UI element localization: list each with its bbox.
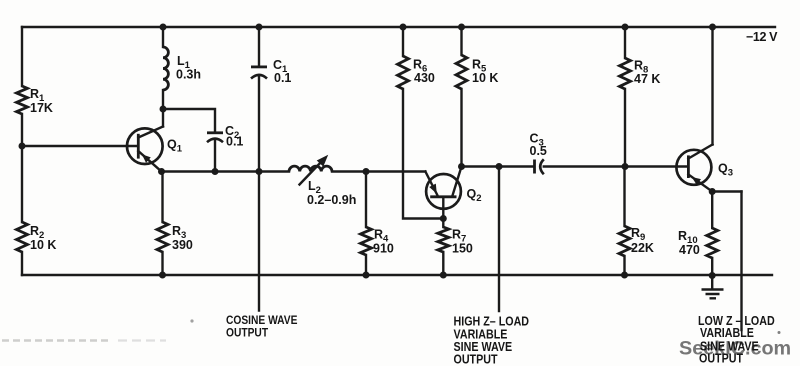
wire: L1 top lead from rail (162, 27, 164, 47)
wire: Q1 collector to L1 node (162, 109, 164, 127)
node: R8 top rail junction (622, 24, 629, 31)
resistor R9 (619, 226, 654, 256)
wire: C1 bottom lead to emitter bus (258, 76, 260, 172)
node: C2 junction (212, 168, 219, 175)
wire: R7 bottom lead (442, 252, 444, 275)
svg-text:0.1: 0.1 (274, 71, 291, 85)
wire: low Z output stub (740, 192, 742, 331)
node: high Z output tap (496, 163, 503, 170)
label LOW Z-LOAD VARIABLE SINE WAVE OUTPUT (698, 314, 775, 366)
node: Q1 emitter / R3 junction (158, 168, 165, 175)
svg-text:OUTPUT: OUTPUT (699, 352, 744, 366)
svg-text:17K: 17K (30, 101, 53, 115)
wire: R10 bottom lead (711, 258, 713, 276)
capacitor C1 (251, 58, 291, 85)
wire: L2 to Q2 emitter bend (332, 170, 425, 172)
wire: left vertical bus upper segment (21, 27, 23, 86)
resistor R2 (17, 222, 57, 252)
svg-text:OUTPUT: OUTPUT (454, 353, 499, 366)
wire: C1 top lead (258, 27, 260, 66)
svg-text:COSINE WAVE: COSINE WAVE (226, 314, 298, 327)
node: L1 top rail junction (160, 24, 167, 31)
wire: emitter bus Q1 to L2 (162, 170, 290, 172)
wire: node to C2 top (163, 109, 215, 132)
node: C1 / cosine output tap (256, 168, 263, 175)
svg-text:390: 390 (172, 238, 193, 252)
wire: left bus lower segment (21, 252, 23, 275)
svg-text:10 K: 10 K (30, 238, 56, 252)
svg-text:10 K: 10 K (472, 71, 498, 85)
wire: R6 top lead (402, 27, 404, 56)
node: Q2 collector / R5 junction (458, 163, 465, 170)
resistor R3 (157, 222, 193, 252)
wire: high Z output stub (498, 167, 500, 312)
svg-text:VARIABLE: VARIABLE (700, 326, 754, 340)
node: R6 top rail junction (400, 24, 407, 31)
scan artifact: faint dashed streak bottom left (2, 339, 110, 342)
inductor L2 (variable) (289, 152, 356, 207)
wire: R5 bottom lead to Q2 collector node (460, 89, 462, 167)
wire: left bus between R1 and R2 (21, 114, 23, 222)
wire: R5 top lead (460, 27, 462, 55)
resistor R10 (678, 228, 718, 258)
ground symbol (702, 276, 724, 299)
wire: C2 bottom lead (214, 140, 216, 172)
wire: Q1 base wire (22, 145, 138, 147)
svg-text:Q3: Q3 (718, 162, 733, 179)
svg-text:0.5: 0.5 (530, 144, 547, 158)
transistor Q2 (425, 167, 481, 219)
resistor R4 (361, 227, 394, 256)
wire: R10 top lead (711, 192, 713, 229)
wire: R9 bottom lead (623, 256, 625, 275)
wire: R3 bottom lead (161, 252, 163, 275)
wire: bottom common rail (22, 274, 772, 276)
wire: R8 top lead (624, 27, 626, 58)
wire: R6 bottom lead down and elbow to Q2 base node (403, 89, 443, 219)
svg-text:47 K: 47 K (634, 72, 660, 86)
capacitor C3 (530, 132, 547, 175)
wire: collector bus Q2 to C3 (462, 165, 535, 167)
label HIGH Z-LOAD VARIABLE SINE WAVE OUTPUT (454, 315, 530, 366)
svg-text:HIGH Z– LOAD: HIGH Z– LOAD (454, 315, 530, 329)
wire: R3 top lead (161, 172, 163, 223)
node: R5 top rail junction (458, 24, 465, 31)
svg-text:430: 430 (414, 71, 435, 85)
resistor R6 (398, 56, 435, 89)
node: R7 to ground rail (440, 272, 447, 279)
wire: emitter node right (712, 190, 741, 192)
resistor R7 (438, 219, 473, 256)
wire: R4 bottom lead (365, 255, 367, 275)
node: R1/R2 junction (19, 143, 26, 150)
node: R4 to ground rail (363, 272, 370, 279)
wire: cosine output stub (258, 172, 260, 311)
svg-text:0.3h: 0.3h (176, 68, 201, 82)
node: R10 / ground junction (709, 272, 716, 279)
svg-text:22K: 22K (631, 241, 654, 255)
inductor L1 (163, 47, 201, 90)
scan artifact: small dot (190, 319, 193, 322)
svg-text:Q2: Q2 (467, 187, 482, 204)
node: Q3 collector rail junction (709, 24, 716, 31)
node: R4 tap on emitter bus (363, 168, 370, 175)
node: Q3 emitter / R10 junction (709, 188, 716, 195)
node: Q2 base / R6 / R7 junction (440, 215, 447, 222)
node: R9 to ground rail (621, 272, 628, 279)
scan artifact: speck near right edge (778, 331, 781, 334)
transistor Q1 (127, 127, 183, 172)
svg-text:OUTPUT: OUTPUT (226, 327, 268, 340)
svg-text:Q1: Q1 (167, 138, 183, 155)
svg-text:−12 V: −12 V (746, 30, 778, 44)
svg-text:470: 470 (679, 243, 700, 257)
wire: R8 bottom lead (624, 89, 626, 167)
wire: R4 top lead (365, 172, 367, 228)
wire: R9 top lead (623, 167, 625, 227)
transistor Q3 (676, 145, 733, 192)
resistor R5 (456, 55, 498, 89)
svg-text:0.2–0.9h: 0.2–0.9h (307, 193, 356, 207)
wire: C3 to Q3 base (544, 165, 688, 167)
wire: -12V top supply rail (22, 26, 775, 28)
svg-text:0.1: 0.1 (226, 135, 243, 149)
resistor R8 (620, 58, 661, 89)
capacitor C2 (207, 124, 243, 149)
node: L1 / Q1 collector / C2 junction (160, 106, 167, 113)
node: R3 to ground rail (159, 272, 166, 279)
svg-text:910: 910 (373, 242, 394, 256)
wire: L1 bottom lead (162, 90, 164, 109)
resistor R1 (17, 86, 53, 115)
node: R8/R9 junction on base bus (622, 163, 629, 170)
svg-text:150: 150 (452, 242, 473, 256)
wire: Q3 collector to top rail (711, 27, 713, 145)
node: C1 top rail junction (256, 24, 263, 31)
